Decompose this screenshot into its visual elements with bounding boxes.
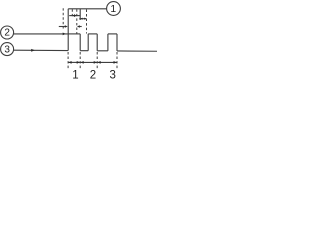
waveform low tail — [117, 50, 157, 52]
arrowhead row15 left — [72, 14, 75, 17]
dim arrowhead span2 left — [81, 61, 84, 64]
arrowhead callout 2 — [63, 33, 66, 36]
dashed guide x86 — [86, 10, 88, 34]
dim arrowhead span3 left — [98, 61, 101, 64]
callout line to circle 1 / detail top — [68, 8, 107, 10]
waveform low segment 2 — [97, 50, 108, 52]
dimension extension x97 — [96, 52, 98, 69]
node 1 circle — [107, 2, 121, 16]
arrowhead callout 3 — [31, 49, 35, 52]
svg-text:3: 3 — [109, 70, 115, 82]
dimension line span 1 — [68, 61, 80, 63]
node 2 circle — [1, 26, 14, 39]
arrowhead row26 pointing left at dash77 — [77, 25, 80, 28]
svg-text:3: 3 — [4, 44, 10, 55]
dashed guide x63 — [62, 8, 64, 28]
dimension line span 2 — [80, 61, 97, 63]
dim arrowhead span1 right — [77, 61, 80, 64]
waveform rise edge 3 — [107, 34, 109, 51]
svg-text:2: 2 — [4, 28, 10, 39]
waveform low segment 1 — [80, 50, 88, 52]
wire callout 3 baseline left — [14, 49, 69, 51]
detail measure tail left row 26 — [59, 26, 65, 28]
dim arrowhead span1 left — [68, 61, 71, 64]
dim arrowhead span3 right — [114, 61, 117, 64]
waveform fall edge 2 — [96, 34, 98, 51]
dimension line span 3 — [97, 61, 117, 63]
dashed guide x77 — [76, 9, 78, 33]
arrowhead row18 right — [84, 18, 86, 20]
dashed guide x72 — [71, 9, 73, 17]
wire callout 2 high-level line — [14, 33, 68, 35]
svg-text:2: 2 — [90, 70, 96, 82]
dimension extension x80 — [79, 52, 81, 69]
detail fall edge upper — [79, 9, 81, 20]
waveform fall edge 1 — [79, 34, 81, 51]
waveform pulse 1 top — [68, 33, 80, 35]
waveform pulse 3 top — [108, 33, 117, 35]
detail measure line row 18 — [79, 18, 86, 20]
svg-text:1: 1 — [72, 70, 78, 82]
dimension extension x68 — [67, 52, 69, 69]
dim arrowhead span2 right — [94, 61, 97, 64]
arrowhead row26 pointing right at rise — [65, 25, 68, 28]
waveform pulse 2 top — [88, 33, 97, 35]
waveform rise edge 2 — [87, 34, 89, 51]
arrowhead row18 left — [80, 18, 82, 20]
detail measure line row 15 — [69, 15, 80, 17]
waveform rise edge 1 (tall, into detail) — [67, 9, 69, 51]
detail measure tail right row 26 — [80, 26, 82, 28]
svg-text:1: 1 — [110, 4, 116, 15]
waveform fall edge 3 — [116, 34, 118, 51]
arrowhead row15 right — [74, 14, 77, 17]
dimension extension x117 — [116, 52, 118, 69]
node 3 circle — [1, 43, 14, 56]
